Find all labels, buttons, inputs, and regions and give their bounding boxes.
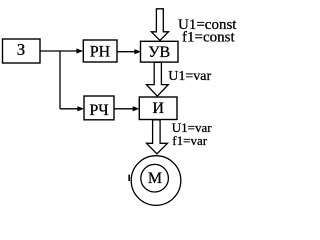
hollow arrow UV to I <box>146 62 168 96</box>
block Z (setpoint device) <box>3 39 41 63</box>
arrowhead into RN <box>76 48 83 53</box>
arrowhead into I <box>133 106 140 111</box>
svg-text:f1=var: f1=var <box>172 133 207 148</box>
block RCh (frequency regulator) <box>84 96 114 120</box>
wire branch to RCh <box>60 108 78 110</box>
wire RCh to I <box>114 108 133 110</box>
arrowhead into RCh <box>77 106 84 111</box>
motor M inner circle <box>141 164 169 192</box>
hollow arrow supply input into UV top <box>151 9 168 41</box>
svg-text:З: З <box>17 40 26 59</box>
svg-text:f1=const: f1=const <box>182 30 235 46</box>
block RN (voltage regulator) <box>83 40 117 62</box>
svg-text:РЧ: РЧ <box>89 102 108 119</box>
svg-text:РН: РН <box>90 44 111 61</box>
arrowhead into UV <box>134 49 141 54</box>
svg-text:М: М <box>148 170 162 187</box>
motor shaft tick <box>128 175 130 181</box>
svg-text:U1=var: U1=var <box>168 69 211 84</box>
motor M outer circle <box>131 156 181 206</box>
block I (inverter) <box>139 97 177 120</box>
svg-text:УВ: УВ <box>148 44 170 61</box>
wire RN to UV <box>117 51 135 53</box>
node branch junction <box>59 51 61 109</box>
block UV (controlled rectifier) <box>141 41 179 62</box>
wire Z output to branch node <box>40 50 77 52</box>
svg-text:И: И <box>152 100 164 117</box>
hollow arrow I to motor <box>147 120 168 154</box>
